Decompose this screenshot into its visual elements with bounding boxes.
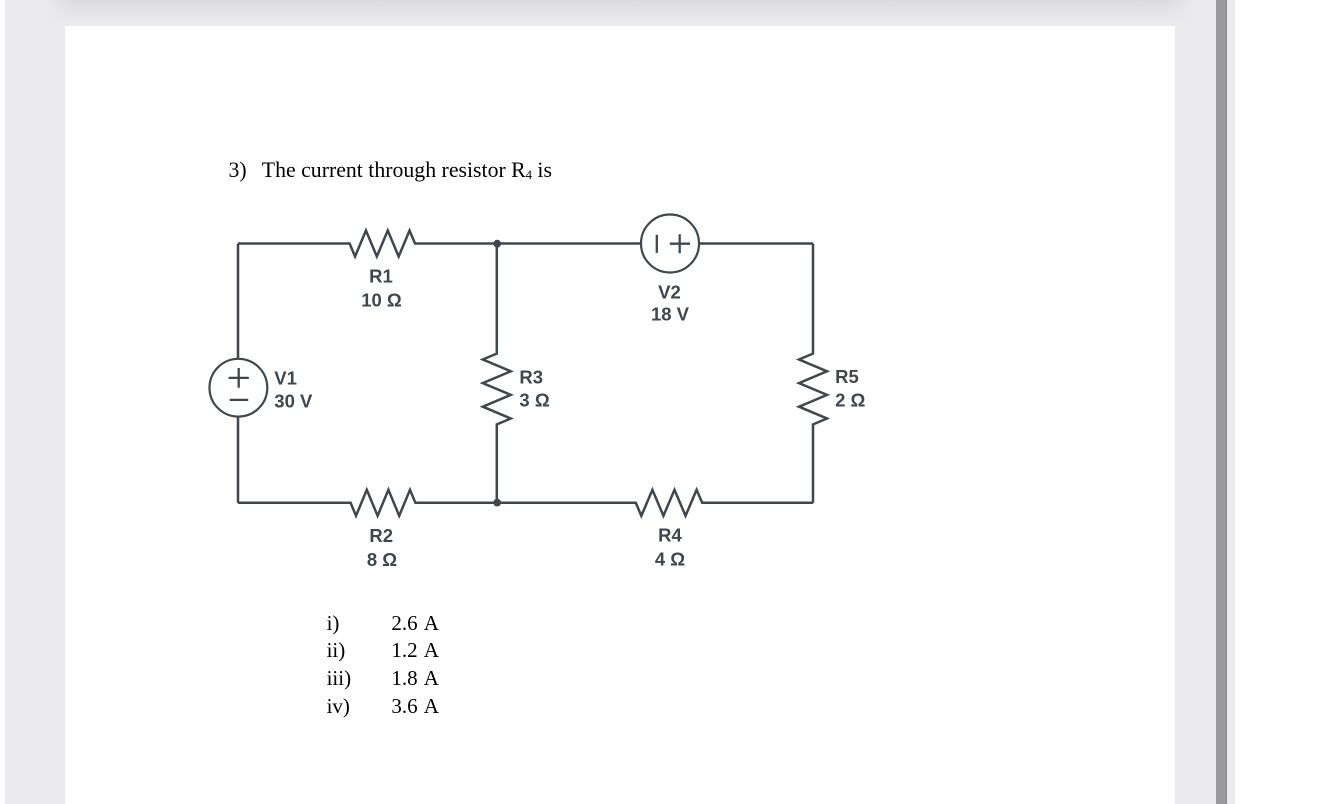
svg-text:R5: R5 (835, 366, 859, 387)
svg-text:R2: R2 (369, 525, 393, 546)
svg-text:18 V: 18 V (651, 303, 690, 324)
svg-text:8 Ω: 8 Ω (367, 549, 397, 570)
svg-text:4 Ω: 4 Ω (655, 549, 685, 570)
svg-text:R1: R1 (369, 265, 393, 286)
svg-text:R4: R4 (658, 525, 682, 546)
svg-text:V2: V2 (658, 282, 681, 303)
svg-text:R3: R3 (519, 367, 543, 388)
svg-text:3 Ω: 3 Ω (519, 390, 549, 411)
svg-text:2 Ω: 2 Ω (835, 390, 865, 411)
svg-text:10 Ω: 10 Ω (361, 290, 402, 311)
svg-text:30 V: 30 V (274, 391, 313, 412)
svg-text:V1: V1 (274, 368, 297, 389)
